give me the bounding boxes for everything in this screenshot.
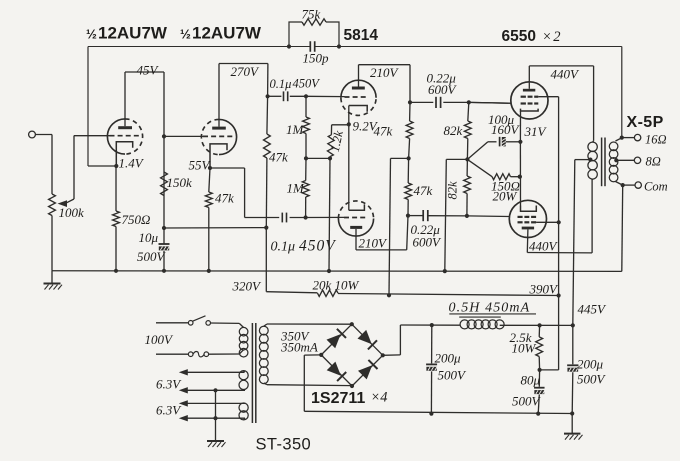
svg-text:1M: 1M [286, 122, 305, 137]
svg-text:1S2711: 1S2711 [311, 390, 365, 407]
svg-text:750Ω: 750Ω [122, 212, 151, 227]
svg-text:450V: 450V [293, 77, 321, 91]
svg-text:445V: 445V [578, 302, 608, 317]
svg-text:47k: 47k [414, 183, 433, 198]
svg-text:270V: 270V [231, 64, 261, 79]
svg-text:100V: 100V [145, 332, 175, 347]
svg-text:500V: 500V [577, 372, 607, 387]
svg-text:440V: 440V [551, 67, 581, 82]
svg-text:12AU7W: 12AU7W [98, 24, 168, 43]
svg-text:47k: 47k [269, 150, 288, 165]
svg-text:1.4V: 1.4V [119, 156, 145, 171]
svg-text:5814: 5814 [344, 27, 379, 44]
svg-text:150k: 150k [167, 175, 193, 190]
svg-text:160V: 160V [491, 122, 521, 137]
svg-text:12AU7W: 12AU7W [192, 24, 262, 43]
svg-text:47k: 47k [374, 124, 393, 139]
svg-text:390V: 390V [529, 282, 560, 297]
svg-text:200μ: 200μ [435, 351, 462, 366]
svg-text:500V: 500V [137, 249, 167, 264]
svg-text:0.5H 450mA: 0.5H 450mA [449, 301, 531, 316]
svg-text:450V: 450V [299, 238, 336, 255]
svg-text:500V: 500V [512, 394, 542, 409]
svg-text:80μ: 80μ [521, 373, 541, 388]
svg-text:100k: 100k [59, 205, 85, 220]
svg-text:6.3V: 6.3V [156, 377, 182, 392]
svg-text:45V: 45V [137, 63, 160, 78]
svg-text:350mA: 350mA [280, 340, 318, 355]
svg-text:55V: 55V [189, 158, 212, 173]
svg-text:600V: 600V [428, 82, 458, 97]
svg-text:Com: Com [644, 180, 668, 194]
svg-text:20W: 20W [493, 189, 518, 204]
svg-text:20k 10W: 20k 10W [313, 278, 360, 293]
svg-text:6.3V: 6.3V [156, 403, 182, 418]
svg-text:47k: 47k [215, 191, 234, 206]
svg-text:320V: 320V [232, 279, 263, 294]
svg-text:200μ: 200μ [577, 357, 604, 372]
svg-text:75k: 75k [302, 7, 321, 22]
svg-text:16Ω: 16Ω [645, 133, 667, 147]
svg-text:½: ½ [86, 27, 97, 42]
svg-text:ST-350: ST-350 [256, 436, 312, 454]
svg-text:10W: 10W [512, 341, 537, 356]
svg-text:82k: 82k [444, 123, 463, 138]
svg-text:31V: 31V [524, 124, 548, 139]
svg-text:×4: ×4 [371, 390, 388, 406]
svg-text:150p: 150p [303, 51, 330, 66]
svg-text:600V: 600V [413, 235, 443, 250]
svg-text:X-5P: X-5P [627, 114, 664, 131]
svg-text:10μ: 10μ [139, 230, 159, 245]
svg-text:210V: 210V [370, 65, 400, 80]
svg-text:6550: 6550 [502, 28, 536, 45]
svg-text:500V: 500V [438, 368, 468, 383]
svg-text:82k: 82k [446, 181, 460, 200]
svg-text:440V: 440V [529, 239, 559, 254]
svg-text:210V: 210V [359, 236, 389, 251]
svg-text:1M: 1M [287, 181, 306, 196]
svg-text:×2: ×2 [542, 29, 562, 45]
svg-text:0.1μ: 0.1μ [270, 77, 292, 91]
svg-text:½: ½ [180, 27, 191, 42]
svg-text:8Ω: 8Ω [646, 155, 661, 169]
svg-text:0.1μ: 0.1μ [271, 240, 296, 255]
